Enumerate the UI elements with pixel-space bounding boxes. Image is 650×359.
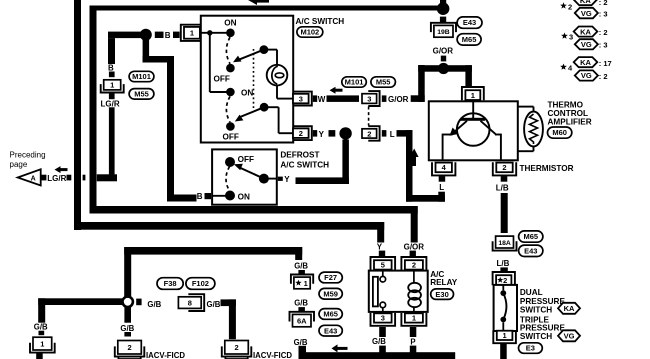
wire L horizontal to pin 4 — [406, 195, 445, 202]
svg-text:G/B: G/B — [120, 324, 134, 333]
svg-text:Y: Y — [284, 175, 290, 184]
svg-text:1: 1 — [40, 339, 44, 348]
note star2 KA — [560, 2, 567, 8]
dashed travel arc defrost — [226, 166, 230, 191]
svg-text:1: 1 — [412, 314, 416, 323]
svg-text:KA: KA — [564, 304, 575, 313]
wire lever to pin 2 — [264, 106, 279, 108]
wire Y stub — [313, 130, 317, 137]
wire pressure switch stub to bottom — [500, 344, 507, 359]
svg-text:KA: KA — [580, 58, 591, 67]
connector pin 3 relay — [371, 313, 396, 326]
wire Y branch down from junction — [342, 140, 349, 185]
connector pin 5 relay — [371, 257, 396, 270]
pressure switch box — [494, 285, 517, 331]
note hexagon KA pressure — [558, 303, 580, 314]
svg-text:KA: KA — [580, 0, 591, 5]
note star4 VG — [575, 70, 598, 80]
connector 1 bottom left — [30, 343, 55, 353]
svg-text:8: 8 — [188, 298, 192, 307]
svg-text:OFF: OFF — [214, 74, 230, 83]
contact ON upper dot — [226, 29, 235, 38]
svg-text:M102: M102 — [300, 28, 319, 37]
wire Y defrost stub — [278, 177, 283, 181]
svg-text:L: L — [439, 183, 444, 192]
node junction B dot — [140, 29, 152, 41]
wire G/B right stub — [136, 299, 141, 306]
contact OFF defrost dot — [225, 157, 235, 167]
connector oval M55 mid — [371, 77, 396, 87]
svg-text:G/B: G/B — [294, 338, 308, 347]
note star3 VG — [575, 39, 598, 49]
svg-text:VG: VG — [581, 71, 592, 80]
thermistor R1 — [518, 106, 534, 108]
wire pin3 stub down — [379, 327, 386, 337]
svg-text:: 2: : 2 — [599, 28, 608, 37]
node 19B top dot — [437, 2, 450, 15]
connector star1 inline — [291, 275, 313, 284]
svg-text:1: 1 — [503, 331, 507, 340]
svg-text:IACV-FICD: IACV-FICD — [253, 351, 292, 359]
wire L corner down — [397, 130, 413, 137]
connector 2 IACV first — [115, 346, 145, 356]
wire LG/R stub after triangle — [41, 175, 46, 181]
wire bridge right riser — [295, 247, 302, 260]
svg-text:2: 2 — [502, 163, 506, 172]
connector oval E30 — [431, 289, 454, 300]
wire G/OR stub below label — [441, 56, 446, 62]
wire stub above IACV first — [124, 332, 131, 337]
svg-text:A/C SWITCH: A/C SWITCH — [296, 17, 345, 26]
switch lever upper — [239, 50, 264, 60]
svg-text:Y: Y — [377, 243, 383, 252]
wire G/OR stub — [382, 95, 387, 102]
arrow left above band — [332, 344, 338, 352]
contact lever upper pivot dot — [260, 45, 269, 54]
contact lever defrost pivot dot — [259, 174, 269, 184]
svg-text:M59: M59 — [323, 289, 338, 298]
svg-text:3: 3 — [299, 94, 303, 103]
wire bottom band — [299, 352, 456, 359]
node Y junction dot — [339, 127, 351, 139]
wire main B feed top horizontal — [90, 6, 447, 11]
wire branch to connector M101 — [108, 32, 146, 38]
wire L/B stub — [500, 267, 507, 272]
wire L stub — [382, 130, 387, 137]
wire branch right riser to pin 1 — [465, 65, 472, 88]
lamp illumination bulb — [267, 65, 288, 86]
svg-text:ON: ON — [241, 88, 253, 97]
svg-text:2: 2 — [412, 261, 416, 270]
svg-text:E43: E43 — [524, 246, 537, 255]
wire Y riser to relay pin 5 — [377, 222, 384, 243]
connector oval M65 6A — [319, 309, 342, 320]
connector oval E43 18A — [519, 245, 543, 256]
svg-text:AMPLIFIER: AMPLIFIER — [548, 117, 592, 126]
wire G/OR branch horizontal — [418, 65, 472, 72]
A/C relay box E30 — [369, 271, 428, 312]
svg-text:KA: KA — [580, 27, 591, 36]
svg-text:P: P — [410, 338, 415, 347]
IACV first lower deck — [118, 357, 140, 359]
wire B stub before pin 1 — [173, 32, 180, 38]
wire pin4 L vertical — [438, 192, 445, 202]
connector pin star2 pressure switch — [493, 272, 515, 285]
wire pin4 stub — [439, 176, 446, 182]
transistor emitter — [452, 121, 467, 134]
contact ON lower dot — [226, 88, 235, 97]
wire stub above connector 1 — [39, 331, 45, 336]
connector oval M65 19B — [457, 34, 481, 45]
A/C switch box M102 — [201, 16, 293, 143]
wire bridge left riser — [124, 247, 131, 297]
wire B vertical to defrost switch — [167, 56, 174, 202]
wire Y defrost bold — [296, 177, 349, 184]
connector pin 1 relay — [401, 313, 426, 326]
wire LG/R foot bar — [97, 174, 117, 181]
wire B into ON defrost — [212, 195, 230, 197]
note hexagon VG pressure — [558, 330, 580, 341]
wire pin2 thermo stub — [501, 176, 508, 182]
wire B stub right of junction — [155, 32, 164, 38]
wire Y horizontal to relay — [74, 222, 384, 230]
dotted linkage line — [253, 49, 255, 108]
svg-text:19B: 19B — [437, 29, 450, 36]
connector 2 IACV second — [222, 346, 252, 356]
svg-text:Preceding: Preceding — [10, 151, 46, 160]
svg-text:A: A — [31, 176, 36, 183]
arrow up on L wire — [410, 149, 419, 158]
svg-text:W: W — [318, 95, 326, 104]
svg-text:G/B: G/B — [294, 298, 308, 307]
svg-text:E3: E3 — [526, 344, 535, 353]
svg-text:: 3: : 3 — [599, 10, 608, 19]
arrow left above W wire — [330, 87, 336, 94]
wire G/B bridge horizontal — [124, 247, 302, 255]
wire B branch down from junction — [143, 38, 150, 63]
wire stub below connector 1 — [36, 353, 43, 359]
svg-text:DEFROST: DEFROST — [280, 150, 319, 159]
svg-text:M65: M65 — [462, 35, 477, 44]
connector oval F38 — [157, 278, 183, 290]
wire circle down arm — [124, 307, 131, 323]
contact lever lower pivot dot — [260, 103, 269, 112]
wire segment LG/R down — [109, 107, 115, 174]
svg-text:L: L — [390, 130, 395, 139]
connector oval M59 — [319, 288, 342, 299]
pressure switch contact — [502, 285, 504, 291]
svg-text:1: 1 — [304, 279, 308, 288]
svg-text:F27: F27 — [324, 273, 337, 282]
note star4 KA — [560, 64, 567, 70]
svg-text:E30: E30 — [435, 290, 448, 299]
svg-text:page: page — [10, 160, 28, 169]
connector pin 1 A/C switch — [181, 25, 201, 41]
svg-text:DUAL: DUAL — [520, 288, 543, 297]
svg-text:2: 2 — [568, 2, 572, 11]
wire left arm riser down — [38, 298, 45, 322]
wire LG/R tick — [83, 175, 86, 181]
svg-text:: 3: : 3 — [599, 41, 608, 50]
svg-text:LG/R: LG/R — [101, 100, 120, 109]
svg-text:G/B: G/B — [207, 300, 221, 309]
svg-text:G/B: G/B — [294, 261, 308, 270]
svg-text:L/B: L/B — [496, 184, 509, 193]
wire pin1 to band — [410, 346, 417, 353]
svg-text:E43: E43 — [463, 18, 476, 27]
connector pin 3 A/C switch — [293, 92, 312, 106]
wire segment above connector 1 — [109, 72, 115, 78]
svg-text:B: B — [197, 192, 203, 201]
connector pin 1 pressure switch — [493, 330, 516, 343]
wire vertical feed left — [90, 6, 97, 214]
svg-text:F102: F102 — [192, 279, 209, 288]
connector oval E43 6A — [319, 325, 342, 336]
switch lever lower — [240, 107, 264, 117]
svg-text:6A: 6A — [297, 316, 307, 325]
transistor Q1 circle — [457, 113, 490, 146]
svg-text:LG/R: LG/R — [47, 174, 66, 183]
svg-text:A/C SWITCH: A/C SWITCH — [280, 160, 329, 169]
svg-text:F38: F38 — [164, 279, 177, 288]
relay coil — [413, 271, 415, 283]
svg-text:VG: VG — [564, 332, 575, 341]
connector oval M55 — [129, 89, 154, 100]
wire lamp to pin 3 — [276, 85, 278, 98]
wire lever defrost to Y — [264, 178, 277, 180]
svg-text:ON: ON — [224, 19, 236, 28]
connector 1 M101/M55 — [101, 84, 124, 92]
wire lever to lamp — [264, 49, 277, 51]
thermo control amplifier box M60 — [429, 101, 518, 160]
svg-text:VG: VG — [581, 9, 592, 18]
svg-text:B: B — [108, 64, 114, 73]
connector 3 inline — [368, 91, 379, 106]
connector oval F27 — [319, 272, 342, 283]
svg-text:VG: VG — [581, 40, 592, 49]
svg-text:B: B — [165, 31, 171, 40]
svg-text:E43: E43 — [324, 326, 337, 335]
svg-text:G/B: G/B — [34, 323, 48, 332]
wire top feed left arrow — [248, 0, 257, 5]
wire segment below connector 1 — [109, 93, 115, 100]
svg-text:RELAY: RELAY — [430, 278, 458, 287]
wire W bold — [327, 95, 360, 102]
note star2 VG — [575, 8, 598, 18]
wire L/B bold vertical — [501, 193, 508, 233]
node G/OR branch dot — [438, 63, 449, 74]
wire outer vertical from preceding page — [74, 0, 81, 230]
wire G/OR riser to relay pin 2 — [411, 206, 418, 243]
wire G/OR horizontal to relay — [90, 206, 418, 214]
wire LG/R stub — [67, 175, 72, 181]
connector oval M101 mid — [342, 77, 367, 87]
connector 19B inline — [431, 23, 456, 32]
svg-text:M65: M65 — [523, 232, 538, 241]
svg-text:3: 3 — [569, 33, 573, 42]
connector pin 1 thermo — [462, 87, 484, 100]
svg-text:OFF: OFF — [223, 132, 239, 141]
dashed connector tie — [368, 107, 370, 126]
svg-text:SWITCH: SWITCH — [520, 306, 552, 315]
connector 6A inline — [290, 312, 315, 322]
connector oval E43 19B — [457, 17, 482, 28]
svg-text:M101: M101 — [132, 72, 151, 81]
svg-text:5: 5 — [381, 261, 385, 270]
svg-text:G/B: G/B — [372, 337, 386, 346]
svg-text:G/OR: G/OR — [388, 95, 409, 104]
svg-text:2: 2 — [367, 129, 371, 138]
dashed travel arc upper — [226, 37, 230, 64]
connector 2 inline — [368, 126, 379, 141]
wire Y relay stub — [379, 251, 385, 257]
transistor collector — [481, 121, 496, 135]
svg-text:1: 1 — [190, 29, 194, 38]
connector oval M102 — [297, 27, 323, 37]
svg-text:M55: M55 — [134, 89, 149, 98]
transistor base lead — [472, 100, 474, 118]
node pin1 junction dot — [207, 30, 212, 35]
contact ON defrost dot — [225, 191, 235, 201]
wire B stub into defrost switch — [205, 193, 212, 199]
svg-text:SWITCH: SWITCH — [520, 332, 552, 341]
IACV second lower deck — [225, 357, 247, 359]
wire W stub — [313, 95, 317, 102]
connector pin 4 thermo — [432, 162, 455, 175]
connector oval F102 — [186, 278, 215, 290]
svg-text:L/B: L/B — [497, 259, 510, 268]
relay contact — [382, 271, 384, 277]
contact OFF lower dot — [226, 122, 235, 131]
svg-text:1: 1 — [471, 91, 475, 100]
svg-text:THERMISTOR: THERMISTOR — [520, 164, 574, 173]
wire G/OR relay stub — [410, 251, 416, 257]
svg-text:2: 2 — [299, 129, 303, 138]
wire G/B left arm — [38, 298, 122, 305]
node G/B open junction — [123, 297, 133, 307]
note star3 KA — [561, 33, 568, 39]
svg-text:: 17: : 17 — [599, 59, 612, 68]
svg-text:: 2: : 2 — [599, 72, 608, 81]
arrow left above LG/R — [55, 166, 61, 173]
wire 6A to band — [299, 346, 307, 353]
connector 18A inline — [493, 241, 517, 250]
svg-text:M60: M60 — [552, 128, 567, 137]
connector pin 2 relay — [401, 257, 426, 270]
svg-text:G/OR: G/OR — [433, 47, 454, 56]
wire internal left rail — [209, 33, 211, 92]
wire pin3 to band — [379, 346, 386, 353]
svg-text:: 2: : 2 — [599, 0, 608, 7]
svg-text:2: 2 — [503, 276, 507, 285]
wire G/B corner to IACV 2 — [221, 299, 236, 306]
switch lever defrost — [240, 168, 264, 179]
svg-text:3: 3 — [367, 94, 371, 103]
connector 8 inline — [188, 294, 204, 311]
svg-text:3: 3 — [381, 314, 385, 323]
wire Y stub 2 — [329, 130, 336, 137]
contact OFF upper dot — [226, 64, 235, 73]
svg-text:IACV-FICD: IACV-FICD — [146, 351, 185, 359]
connector oval E3 — [519, 343, 543, 354]
wire pin 1 into switch — [199, 32, 230, 34]
svg-text:M65: M65 — [323, 310, 338, 319]
svg-text:Y: Y — [319, 130, 325, 139]
dashed travel arc lower — [226, 96, 230, 122]
svg-text:ON: ON — [238, 192, 250, 201]
wire emitter to pin 4 — [443, 134, 453, 136]
connector pin 2 A/C switch — [293, 126, 312, 140]
wire stub above star1 — [298, 270, 305, 275]
svg-text:G/OR: G/OR — [404, 243, 425, 252]
defrost A/C switch box — [212, 149, 277, 204]
wire stub above 6A — [298, 307, 305, 311]
connector pin 2 thermo — [493, 162, 516, 175]
connector oval M65 18A — [519, 231, 543, 242]
svg-text:M101: M101 — [345, 78, 364, 87]
wire stub above 19B dot — [440, 0, 446, 4]
connector oval M60 — [548, 127, 572, 138]
wire collector to pin 2 — [495, 134, 501, 136]
wire pin1 stub down — [410, 327, 417, 337]
svg-text:2: 2 — [127, 343, 131, 352]
svg-text:PRESSURE: PRESSURE — [520, 323, 566, 332]
svg-text:2: 2 — [234, 343, 238, 352]
svg-text:PRESSURE: PRESSURE — [520, 297, 566, 306]
svg-text:M55: M55 — [376, 78, 391, 87]
wire G/OR corner up — [411, 95, 425, 102]
svg-text:18A: 18A — [498, 240, 511, 247]
connector oval M101 — [129, 71, 154, 81]
svg-text:OFF: OFF — [238, 155, 254, 164]
symbol page triangle A — [18, 169, 41, 185]
svg-text:G/B: G/B — [147, 300, 161, 309]
wire stub below dot — [440, 17, 446, 23]
svg-text:1: 1 — [110, 81, 114, 90]
